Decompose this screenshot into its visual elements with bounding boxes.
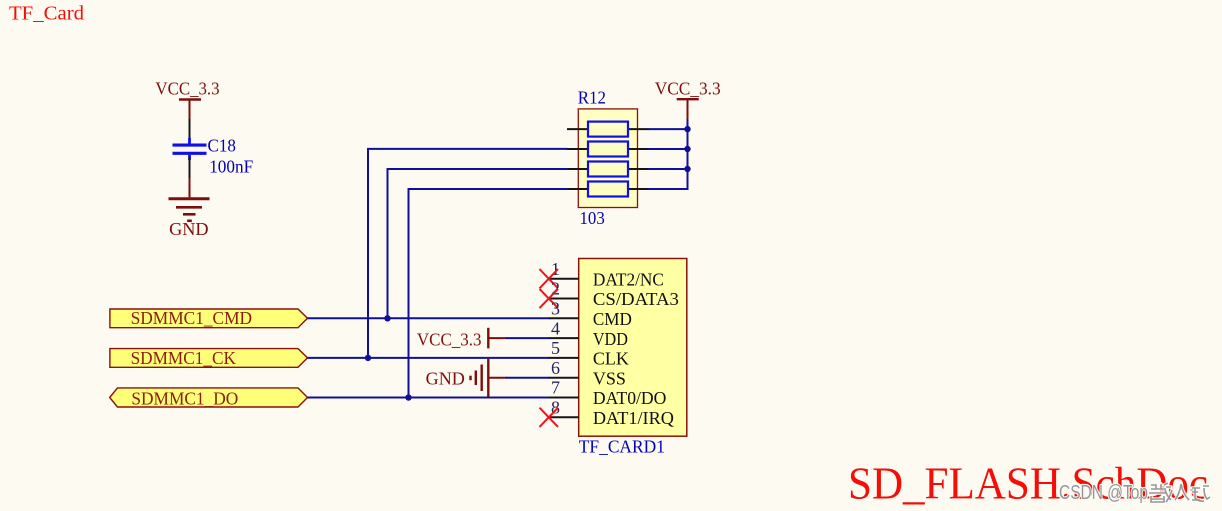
wire (R12 row3 to CMD net) bbox=[387, 169, 568, 318]
capacitor C18 bbox=[173, 138, 207, 160]
wire (R12 row2 to CLK net) bbox=[367, 149, 568, 358]
pin 7 DAT0/DO bbox=[549, 378, 667, 409]
svg-text:GND: GND bbox=[426, 368, 465, 388]
svg-text:DAT0/DO: DAT0/DO bbox=[593, 388, 667, 408]
pin 8 DAT1/IRQ bbox=[549, 398, 674, 429]
svg-text:VCC_3.3: VCC_3.3 bbox=[417, 329, 482, 349]
resistor R12 element 1 bbox=[567, 122, 649, 137]
power port VCC_3.3 (right of R12, bar style) bbox=[655, 78, 721, 120]
pin 1 DAT2/NC bbox=[549, 259, 664, 290]
svg-text:TF_Card: TF_Card bbox=[9, 3, 84, 25]
IC TF_CARD1 body bbox=[579, 259, 687, 437]
resistor R12 element 3 bbox=[567, 162, 649, 177]
svg-text:DAT1/IRQ: DAT1/IRQ bbox=[593, 408, 674, 428]
svg-text:CS/DATA3: CS/DATA3 bbox=[593, 289, 679, 309]
resistor R12 element 2 bbox=[567, 142, 649, 157]
port SDMMC1_DO bbox=[110, 388, 308, 409]
no-connect X pin 8 bbox=[540, 408, 559, 427]
port SDMMC1_CMD bbox=[110, 308, 308, 328]
junction (DAT0 / pull-up) bbox=[405, 394, 411, 400]
wire (SDMMC1_DO to pin 7) bbox=[308, 397, 550, 399]
junction (VCC rail row 2) bbox=[684, 146, 690, 152]
svg-text:DAT2/NC: DAT2/NC bbox=[593, 269, 664, 289]
power port VCC_3.3 (left, bar style) bbox=[155, 78, 219, 120]
svg-text:CSDN @Top: CSDN @Top bbox=[1059, 482, 1148, 504]
svg-text:TF_CARD1: TF_CARD1 bbox=[579, 436, 665, 456]
ground GND (at pin 6 VSS) bbox=[426, 359, 507, 397]
svg-text:VCC_3.3: VCC_3.3 bbox=[155, 78, 219, 98]
pin 6 VSS bbox=[549, 358, 626, 389]
svg-text:SDMMC1_DO: SDMMC1_DO bbox=[131, 388, 238, 408]
resistor R12 element 4 bbox=[567, 182, 649, 197]
wire (GND to pin 6) bbox=[506, 377, 550, 379]
svg-text:103: 103 bbox=[580, 208, 605, 228]
no-connect X pin 1 bbox=[540, 269, 559, 288]
watermark CJK glyphs (approximated strokes) bbox=[1149, 483, 1210, 502]
junction (VCC rail row 3) bbox=[684, 166, 690, 172]
pin 4 VDD bbox=[549, 318, 628, 349]
wire (VCC to pin 4) bbox=[506, 337, 550, 339]
svg-text:SDMMC1_CMD: SDMMC1_CMD bbox=[131, 308, 253, 328]
svg-text:7: 7 bbox=[551, 378, 560, 398]
junction (CMD / pull-up) bbox=[384, 315, 390, 321]
wire (R12 right pins to VCC rail) bbox=[648, 119, 688, 190]
svg-text:VSS: VSS bbox=[593, 368, 626, 388]
no-connect X pin 2 bbox=[540, 289, 559, 308]
svg-text:CLK: CLK bbox=[593, 349, 629, 369]
pin 3 CMD bbox=[549, 299, 632, 330]
power port VCC_3.3 (at pin 4 VDD) bbox=[417, 328, 507, 350]
svg-text:6: 6 bbox=[551, 358, 560, 378]
pin 2 CS/DATA3 bbox=[549, 279, 679, 310]
pin 5 CLK bbox=[549, 338, 629, 369]
wire (R12 row4 to DAT0 net) bbox=[408, 189, 568, 398]
svg-text:3: 3 bbox=[551, 299, 560, 319]
svg-text:100nF: 100nF bbox=[209, 156, 253, 176]
wire (SDMMC1_CMD to pin 3) bbox=[308, 317, 550, 319]
junction (CLK / pull-up) bbox=[365, 355, 371, 361]
svg-text:CMD: CMD bbox=[593, 309, 632, 329]
ground GND (left power ground) bbox=[169, 178, 210, 239]
svg-text:4: 4 bbox=[551, 318, 560, 338]
wire (SDMMC1_CK to pin 5) bbox=[308, 357, 550, 359]
svg-text:5: 5 bbox=[551, 338, 560, 358]
svg-text:C18: C18 bbox=[208, 136, 236, 156]
junction (VCC rail row 1) bbox=[684, 126, 690, 132]
resistor network R12 body bbox=[578, 109, 637, 208]
wire (VCC to C18 top pin) bbox=[189, 119, 191, 142]
svg-text:GND: GND bbox=[169, 219, 209, 239]
svg-text:VDD: VDD bbox=[593, 329, 628, 349]
port SDMMC1_CK bbox=[110, 348, 308, 368]
svg-text:VCC_3.3: VCC_3.3 bbox=[655, 78, 721, 98]
svg-text:R12: R12 bbox=[578, 87, 606, 107]
svg-text:SDMMC1_CK: SDMMC1_CK bbox=[131, 348, 236, 368]
wire (C18 bottom pin to GND) bbox=[189, 157, 191, 179]
